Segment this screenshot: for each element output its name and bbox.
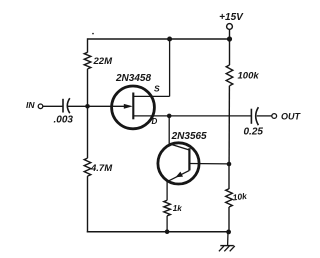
node dot ground corner (226, 230, 231, 235)
transistor Q1 channel bar (132, 93, 134, 120)
node dot source riser on top rail (167, 37, 172, 42)
OUT terminal (272, 112, 302, 122)
svg-text:S: S (154, 84, 160, 94)
resistor 22M (84, 52, 113, 69)
transistor Q2 base bar (188, 148, 190, 170)
wire gate node to JFET gate (88, 105, 127, 107)
wire source riser to top rail (169, 39, 171, 96)
IN terminal (26, 100, 43, 110)
node dot +15V rail junction (227, 36, 232, 41)
svg-text:2N3458: 2N3458 (115, 73, 151, 84)
resistor 4.7M (84, 158, 113, 176)
svg-text:.003: .003 (54, 115, 74, 126)
wire 1k to bottom rail (166, 216, 168, 232)
svg-text:100k: 100k (238, 71, 260, 82)
transistor Q2 BJT 2N3565 body (158, 143, 199, 184)
svg-text:OUT: OUT (281, 112, 302, 122)
wire output cap to OUT terminal (257, 115, 272, 117)
svg-text:D: D (152, 117, 158, 126)
node speck on top rail (92, 33, 94, 35)
svg-text:4.7M: 4.7M (90, 163, 113, 174)
pin label D (152, 117, 158, 126)
wire bottom rail (87, 231, 229, 233)
node dot base node (227, 162, 232, 167)
svg-text:IN: IN (26, 100, 35, 110)
wire capacitor to gate node (68, 105, 88, 107)
resistor 1k (164, 200, 182, 216)
wire left rail middle segment (87, 69, 89, 158)
transistor Q1 JFET 2N3458 body (112, 86, 155, 129)
wire left rail upper segment (87, 38, 89, 52)
wire IN terminal to capacitor (43, 105, 63, 107)
wire left rail lower segment (87, 176, 89, 232)
resistor 10k (226, 189, 249, 207)
wire right rail top segment (229, 39, 231, 65)
wire right rail mid segment (228, 86, 230, 164)
capacitor C2 0.25 (244, 107, 264, 137)
capacitor C1 .003 (54, 98, 74, 126)
pin label S (154, 84, 160, 94)
wire 10k to bottom rail (228, 207, 230, 232)
wire drain lead to output cap (133, 115, 251, 117)
node dot gate node (85, 104, 90, 109)
transistor Q2 label 2N3565 (171, 131, 207, 142)
ground (219, 232, 235, 251)
node dot drain node (167, 114, 172, 119)
transistor Q1 label 2N3458 (115, 73, 151, 84)
wire drain node down to BJT collector (169, 116, 189, 150)
svg-text:22M: 22M (93, 56, 114, 67)
svg-text:0.25: 0.25 (244, 126, 264, 137)
svg-text:2N3565: 2N3565 (171, 131, 207, 142)
node dot 1k bottom (165, 229, 170, 234)
transistor Q2 emitter line with arrow (167, 170, 190, 181)
svg-text:1k: 1k (173, 204, 182, 213)
wire top rail (88, 38, 230, 40)
wire right rail to 10k (228, 164, 230, 189)
transistor Q1 gate arrow (124, 104, 133, 109)
wire emitter down to 1k (166, 182, 168, 201)
resistor 100k (226, 65, 259, 86)
svg-text:+15V: +15V (219, 12, 244, 23)
wire source lead (133, 95, 169, 97)
power +15V terminal (219, 12, 244, 39)
svg-text:10k: 10k (232, 191, 249, 203)
wire base lead to right rail (189, 163, 229, 165)
